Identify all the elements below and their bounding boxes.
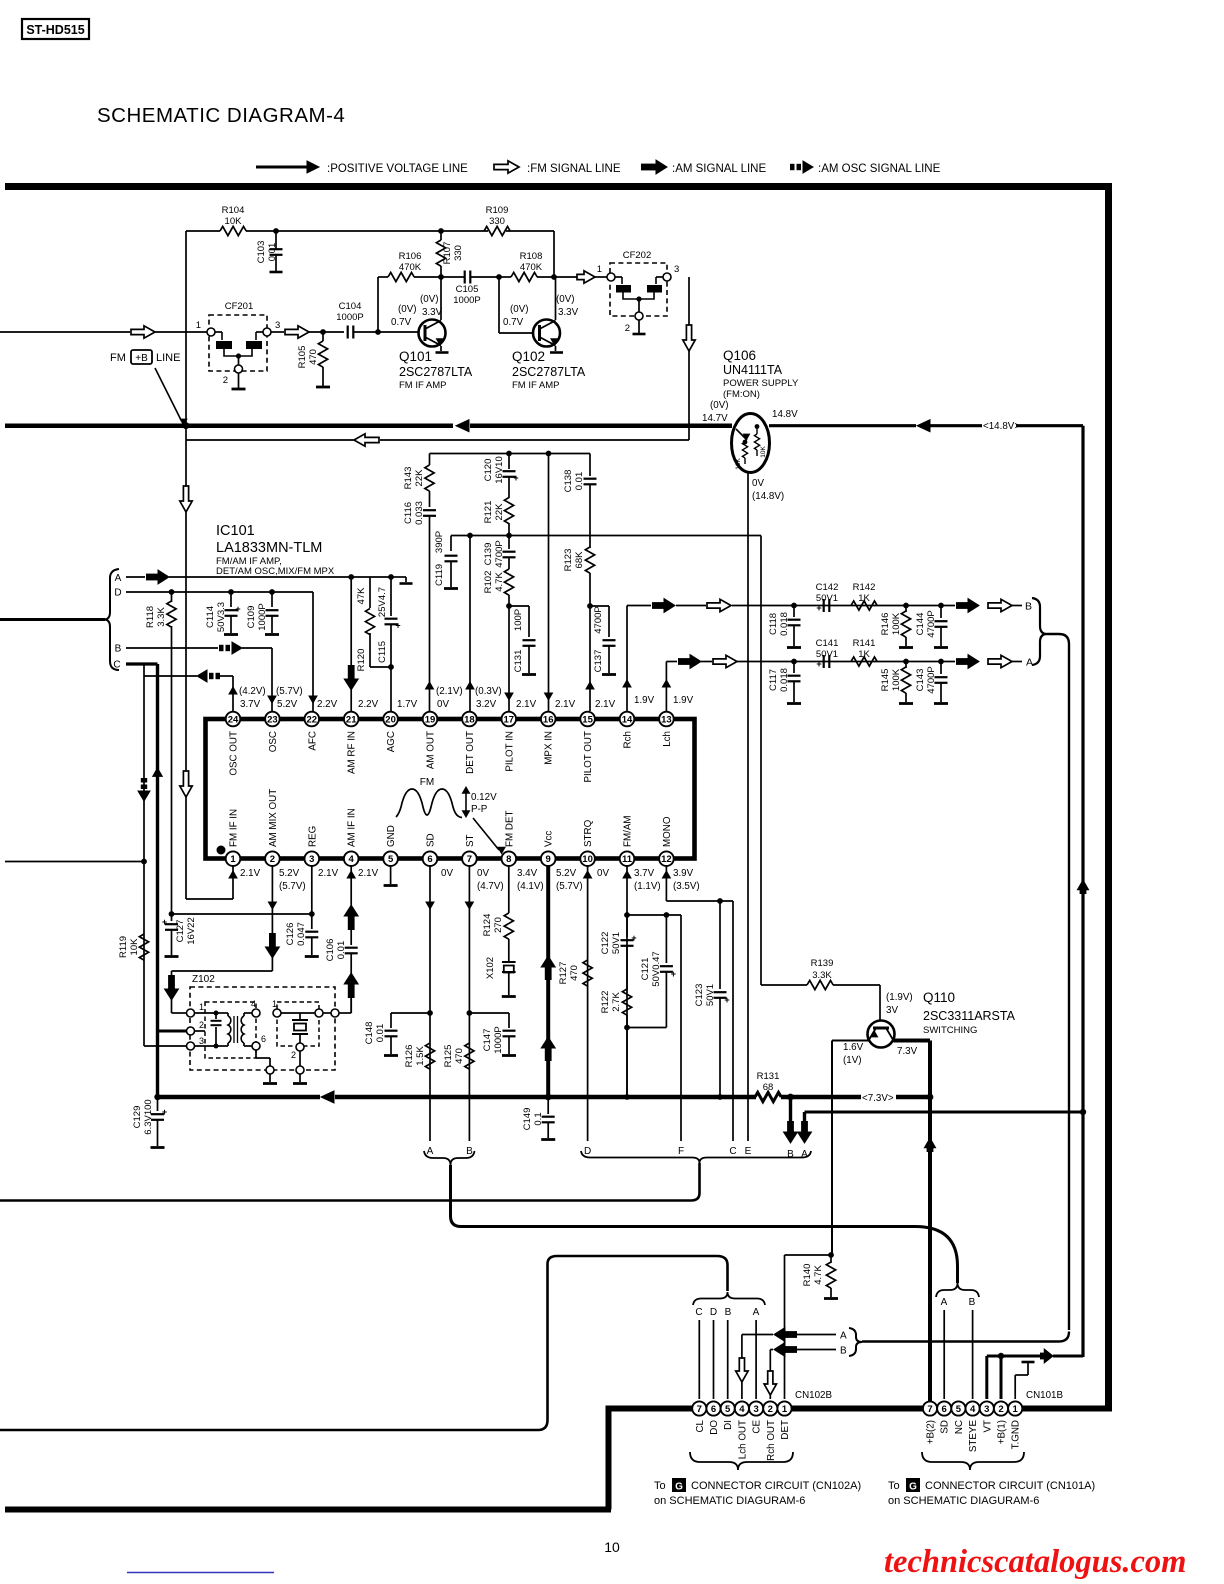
svg-text:CONNECTOR CIRCUIT (CN101A): CONNECTOR CIRCUIT (CN101A)	[925, 1480, 1095, 1492]
wire down to pin20	[390, 667, 392, 711]
svg-text:3: 3	[309, 854, 314, 865]
wire A/B bundle to right	[862, 1340, 1059, 1342]
svg-text:C139: C139	[483, 543, 494, 566]
FM input line from left	[0, 331, 130, 333]
svg-text:(4.2V): (4.2V)	[239, 686, 266, 697]
svg-text:FM: FM	[110, 352, 126, 364]
svg-text:2.1V: 2.1V	[358, 868, 379, 879]
AM arrow A line	[678, 658, 690, 665]
node R145 top	[903, 659, 909, 665]
wire to IC pin1	[186, 898, 233, 900]
resistor R140	[830, 1255, 832, 1263]
svg-text::POSITIVE VOLTAGE LINE: :POSITIVE VOLTAGE LINE	[327, 163, 468, 175]
IC101 pin 16 MPX IN	[541, 712, 556, 727]
wire pin2 route to Z102	[172, 970, 273, 972]
rail 7.3V thick	[158, 1095, 321, 1100]
svg-text:4: 4	[970, 1404, 976, 1415]
capacitor C122 electrolytic	[626, 915, 628, 937]
wire pin17 vertical	[508, 606, 510, 711]
svg-text:STEYE: STEYE	[968, 1420, 979, 1453]
IC101 pin 7 ST	[462, 851, 477, 866]
capacitor C138	[589, 454, 591, 477]
AM arrow B out	[956, 602, 968, 609]
CN102B pin 6	[706, 1401, 720, 1415]
svg-text:10K: 10K	[225, 216, 243, 227]
svg-text:13: 13	[661, 714, 672, 725]
svg-text:R105: R105	[297, 346, 308, 369]
A supply drop	[803, 1112, 806, 1126]
arrow on 14.8V line left	[456, 420, 469, 432]
svg-text:0.01: 0.01	[375, 1024, 386, 1043]
svg-text:LA1833MN-TLM: LA1833MN-TLM	[216, 540, 322, 556]
svg-text:1K: 1K	[858, 593, 870, 604]
svg-text:AGC: AGC	[386, 731, 397, 752]
brace D F C E A B bracket	[581, 1151, 811, 1163]
svg-text:A: A	[1026, 657, 1033, 669]
svg-text:3.3K: 3.3K	[812, 970, 832, 981]
CN102B pin stems	[698, 1320, 700, 1399]
svg-text:5.2V: 5.2V	[556, 868, 577, 879]
svg-text:4700P: 4700P	[494, 540, 505, 567]
IC101 pin 19 AM OUT	[423, 712, 438, 727]
Q102 base wire	[498, 277, 500, 333]
feed line CN102B CDBA	[0, 1256, 728, 1430]
arrow up on C vertical	[153, 768, 163, 776]
svg-text:DO: DO	[709, 1420, 720, 1435]
Z102 pin2	[187, 1027, 195, 1035]
pin1 index dot	[217, 846, 226, 855]
svg-text:5: 5	[725, 1404, 731, 1415]
svg-text:1: 1	[782, 1404, 788, 1415]
svg-text:AFC: AFC	[307, 731, 318, 751]
svg-text:C137: C137	[593, 650, 604, 673]
svg-text:(5.7V): (5.7V)	[276, 686, 303, 697]
svg-text:1: 1	[272, 999, 277, 1009]
ground CF202 pin2	[638, 320, 640, 333]
svg-text:0.12V: 0.12V	[471, 792, 497, 803]
wire pin14 vertical to B line	[626, 606, 628, 712]
svg-text:R141: R141	[853, 638, 876, 649]
svg-text:270: 270	[493, 917, 504, 933]
wire B/A bundle to bottom	[1047, 634, 1069, 644]
svg-text:CN102B: CN102B	[795, 1390, 832, 1401]
node pin18 tap	[467, 533, 473, 539]
node C115 top	[388, 574, 394, 580]
node R107 top	[438, 228, 444, 234]
svg-text:+: +	[235, 604, 240, 614]
svg-text:R106: R106	[399, 251, 422, 262]
svg-text:1: 1	[1013, 1404, 1019, 1415]
svg-text:14.7V: 14.7V	[702, 413, 728, 424]
svg-text:330: 330	[453, 245, 464, 261]
wire CF202 output down	[688, 277, 690, 440]
brace CN102B CDBA	[693, 1292, 765, 1305]
FM arrow down x186 lower	[180, 771, 192, 797]
resistor R143	[429, 454, 431, 466]
svg-text:C144: C144	[915, 613, 926, 636]
wire pin9 Vcc column thick	[546, 866, 550, 1097]
svg-text:R145: R145	[880, 669, 891, 692]
FM arrow A out	[988, 655, 1012, 667]
svg-text:PILOT OUT: PILOT OUT	[583, 731, 594, 783]
svg-text:1.7V: 1.7V	[397, 699, 418, 710]
svg-text:1: 1	[597, 264, 602, 275]
svg-text:R131: R131	[757, 1071, 780, 1082]
AM arrow B line	[652, 602, 664, 609]
Q102 emitter ground	[555, 346, 557, 351]
svg-text:50V1: 50V1	[816, 649, 838, 660]
svg-text:470K: 470K	[520, 262, 543, 273]
svg-text:+: +	[671, 969, 676, 979]
capacitor C143	[940, 662, 942, 675]
svg-text:R125: R125	[443, 1045, 454, 1068]
svg-text:STRQ: STRQ	[583, 819, 594, 847]
wire C osc row y676	[143, 664, 145, 676]
svg-text:50V1: 50V1	[705, 984, 716, 1006]
node C129 top	[154, 1094, 160, 1100]
svg-text:4700P: 4700P	[926, 666, 937, 693]
wire base row y277	[378, 276, 388, 278]
svg-text:10K: 10K	[129, 938, 140, 956]
node R146 top	[903, 603, 909, 609]
brace CN101B bottom	[922, 1452, 1024, 1470]
svg-text:16V10: 16V10	[494, 456, 505, 483]
svg-text:<7.3V>: <7.3V>	[862, 1093, 894, 1104]
wire Q110 base	[879, 985, 881, 1020]
node Q102 collector top	[551, 274, 557, 280]
wire B drop to pin23	[271, 648, 273, 711]
svg-text:(0V): (0V)	[510, 304, 529, 315]
svg-text:1: 1	[196, 320, 201, 331]
svg-text:ST: ST	[465, 834, 476, 847]
Z102 inner box resonator	[277, 1002, 319, 1046]
svg-text:MPX IN: MPX IN	[544, 731, 555, 765]
capacitor C109	[271, 592, 273, 607]
svg-text:A: A	[941, 1297, 948, 1308]
IC101 pin 21 AM RF IN	[344, 712, 359, 727]
svg-text:24: 24	[228, 714, 239, 725]
svg-text:3.3K: 3.3K	[156, 607, 167, 627]
svg-text:25V4.7: 25V4.7	[377, 587, 388, 617]
node C105 right	[496, 274, 502, 280]
wire left stub y861	[5, 861, 144, 863]
node R105 top	[320, 329, 326, 335]
resistor R123	[585, 547, 594, 573]
wire A row	[126, 576, 145, 578]
Q102 collector wire	[555, 277, 557, 320]
svg-text:(5.7V): (5.7V)	[279, 881, 306, 892]
arrow up on +B2 line	[924, 1138, 935, 1148]
svg-text:D: D	[710, 1307, 717, 1318]
node Q101 base	[375, 329, 381, 335]
AM OSC arrow B row	[219, 645, 224, 651]
svg-text:23: 23	[267, 714, 278, 725]
svg-text:50V1: 50V1	[816, 593, 838, 604]
FM arrow on input	[131, 326, 155, 338]
capacitor C149	[547, 1097, 549, 1114]
svg-text:4: 4	[739, 1404, 745, 1415]
svg-text::AM OSC SIGNAL LINE: :AM OSC SIGNAL LINE	[818, 163, 941, 175]
svg-text:2SC3311ARSTA: 2SC3311ARSTA	[923, 1009, 1016, 1023]
wire pin13 vertical to A line	[665, 662, 667, 712]
svg-text:X102: X102	[485, 957, 496, 979]
svg-text:10K: 10K	[760, 446, 767, 458]
svg-text:B: B	[969, 1297, 976, 1308]
resistor R122	[622, 989, 631, 1015]
node D-R118	[169, 589, 175, 595]
svg-text:16: 16	[543, 714, 554, 725]
Z102 resonator	[273, 1009, 281, 1017]
svg-text:C149: C149	[522, 1108, 533, 1131]
resistor R102	[504, 569, 513, 595]
svg-text:+: +	[162, 917, 167, 927]
svg-text:7: 7	[467, 854, 472, 865]
svg-text:2.2V: 2.2V	[358, 699, 379, 710]
IC101 pin 1 FM IF IN	[226, 851, 241, 866]
legend FM signal line	[494, 161, 519, 173]
brace CN101B A B	[936, 1283, 979, 1297]
Q101 collector wire	[440, 277, 442, 320]
svg-text:0V: 0V	[597, 868, 609, 879]
svg-text:2SC2787LTA: 2SC2787LTA	[399, 365, 473, 379]
svg-text:2: 2	[768, 1404, 773, 1415]
capacitor C104	[347, 326, 349, 339]
svg-text:3.7V: 3.7V	[240, 699, 261, 710]
node pin11 y915	[624, 912, 630, 918]
svg-text:C: C	[695, 1307, 702, 1318]
svg-text:+: +	[513, 473, 518, 483]
svg-text:0.01: 0.01	[574, 472, 585, 491]
svg-text:R139: R139	[811, 958, 834, 969]
crystal X102	[502, 961, 516, 963]
resistor R119	[139, 934, 148, 960]
IC101 pin 5 GND	[383, 851, 398, 866]
node R104-C103	[273, 228, 279, 234]
svg-text:14.8V: 14.8V	[772, 409, 798, 420]
svg-text:To: To	[654, 1480, 666, 1492]
svg-text:C123: C123	[694, 984, 705, 1007]
wire C thick vertical	[156, 664, 159, 1097]
svg-text:1: 1	[199, 1002, 204, 1012]
resistor R106	[388, 272, 414, 281]
svg-text:FM/AM: FM/AM	[623, 815, 634, 847]
svg-text:T.GND: T.GND	[1011, 1420, 1022, 1449]
svg-text:C115: C115	[377, 641, 388, 663]
svg-text:3.2V: 3.2V	[476, 699, 497, 710]
svg-text:3: 3	[674, 264, 679, 275]
svg-text:C104: C104	[339, 301, 362, 312]
node C131 tap	[506, 603, 512, 609]
svg-text:4.7K: 4.7K	[813, 1265, 824, 1285]
svg-text:8: 8	[506, 854, 511, 865]
svg-text:D: D	[584, 1146, 591, 1157]
capacitor C106	[345, 947, 358, 949]
svg-text:3.3V: 3.3V	[558, 307, 579, 318]
svg-text:2: 2	[625, 323, 630, 334]
svg-text:+: +	[816, 659, 821, 669]
CN102B pin 2	[763, 1401, 777, 1415]
CN101B pin 1	[1008, 1401, 1022, 1415]
svg-text:3.9V: 3.9V	[673, 868, 694, 879]
svg-text:6: 6	[261, 1034, 266, 1044]
svg-text:NC: NC	[954, 1420, 965, 1434]
svg-text:4.7K: 4.7K	[494, 572, 505, 592]
svg-text:3: 3	[984, 1404, 989, 1415]
svg-text:(0V): (0V)	[556, 294, 575, 305]
svg-text:Q102: Q102	[512, 349, 545, 364]
AM arrow A left	[785, 1331, 797, 1338]
svg-text:R104: R104	[222, 205, 245, 216]
node D-C114	[228, 589, 234, 595]
node 14.8V drop	[1080, 1109, 1086, 1115]
svg-text:FM: FM	[420, 777, 434, 788]
IC101 pin 12 MONO	[659, 851, 674, 866]
svg-text:B: B	[840, 1346, 847, 1357]
svg-text:3: 3	[753, 1404, 758, 1415]
svg-text:4: 4	[251, 999, 256, 1009]
wire C row thick	[126, 662, 158, 665]
node +B1 stem	[998, 1353, 1004, 1359]
svg-text::FM SIGNAL LINE: :FM SIGNAL LINE	[527, 163, 621, 175]
svg-text:CF202: CF202	[623, 250, 652, 261]
wire A drop to pin21	[350, 577, 352, 711]
svg-text:10: 10	[582, 854, 593, 865]
svg-text:R126: R126	[404, 1045, 415, 1068]
node C117 top	[791, 659, 797, 665]
svg-text:Q110: Q110	[923, 990, 955, 1005]
svg-text:A: A	[427, 1146, 434, 1157]
wire y536 line to Q110 base feed	[451, 535, 761, 537]
wire x144 osc line down to Z102	[143, 676, 145, 1046]
capacitor C103	[275, 231, 277, 249]
wire pin7 ST column	[468, 866, 470, 1141]
svg-text:Lch OUT: Lch OUT	[737, 1420, 748, 1459]
svg-text:(0V): (0V)	[420, 294, 439, 305]
svg-text:1.6V: 1.6V	[843, 1042, 864, 1053]
svg-text:C138: C138	[563, 470, 574, 493]
svg-text:68: 68	[763, 1082, 774, 1093]
wire B row	[126, 647, 218, 649]
ground CF201 pin2	[238, 373, 240, 388]
node Vcc rail	[545, 1094, 552, 1101]
CN102B pin 5	[721, 1401, 735, 1415]
svg-text:7: 7	[697, 1404, 702, 1415]
brace B/A outputs	[1032, 598, 1047, 665]
wire pin16 vertical	[548, 454, 550, 712]
Z102 pin3 node	[187, 1042, 195, 1050]
svg-text:on SCHEMATIC DIAGURAM-6: on SCHEMATIC DIAGURAM-6	[888, 1495, 1039, 1507]
bus SD/ST thick	[451, 1165, 958, 1283]
arrow up on 14.8V drop	[1077, 880, 1088, 890]
resistor R127	[583, 960, 592, 986]
wire pin6 SD column	[429, 866, 431, 1141]
wire D drop to pin22	[312, 592, 314, 711]
transistor Q110	[868, 1021, 895, 1048]
blue underline	[127, 1572, 274, 1574]
wire pin5 GND stub	[390, 866, 392, 884]
ground stub A row end	[391, 576, 406, 578]
svg-text:on SCHEMATIC DIAGURAM-6: on SCHEMATIC DIAGURAM-6	[654, 1495, 805, 1507]
svg-text:12: 12	[661, 854, 672, 865]
node B drop	[787, 1094, 794, 1101]
wire thick to Z102 pin2	[158, 1030, 187, 1033]
svg-text:21: 21	[346, 714, 357, 725]
transistor Q102	[533, 320, 560, 347]
wire vcc rail y453	[430, 453, 591, 455]
svg-text:3.3V: 3.3V	[422, 307, 443, 318]
wire 14.8V corner to VT	[1082, 1112, 1085, 1356]
wire pin12 MONO route	[665, 866, 667, 901]
Rch OUT stem with FM arrow	[769, 1350, 771, 1400]
CN102B pin 7	[692, 1401, 706, 1415]
svg-text:17: 17	[504, 714, 515, 725]
svg-text:IC101: IC101	[216, 523, 255, 539]
svg-text:AM MIX OUT: AM MIX OUT	[268, 789, 279, 847]
svg-text:+: +	[162, 1107, 167, 1117]
wire C column down	[732, 901, 734, 1141]
svg-text:0.7V: 0.7V	[391, 317, 412, 328]
capacitor C123	[719, 901, 721, 989]
AM arrow up pin4	[348, 916, 355, 930]
svg-text:100K: 100K	[891, 668, 902, 691]
svg-text:C103: C103	[256, 241, 267, 264]
Q110 collector wire thick	[894, 1039, 931, 1043]
svg-text:2: 2	[270, 854, 275, 865]
svg-text:3.7V: 3.7V	[634, 868, 655, 879]
AM arrow down A	[801, 1121, 808, 1132]
svg-text:22K: 22K	[494, 503, 505, 521]
svg-text:R121: R121	[483, 501, 494, 524]
FM arrow down on CF202 drop	[683, 325, 695, 351]
svg-text:2.2V: 2.2V	[317, 699, 338, 710]
resistor R141	[851, 657, 877, 666]
wire y915 branch	[627, 914, 681, 916]
svg-text:R127: R127	[558, 962, 569, 985]
discriminator Z102 outer box	[190, 987, 335, 1070]
wire pin11 FM AM column	[626, 866, 628, 1097]
IC101 pin 9 Vcc	[541, 851, 556, 866]
wire pin15 vertical	[589, 606, 591, 711]
svg-text:(1.9V): (1.9V)	[886, 992, 913, 1003]
svg-text:1.9V: 1.9V	[634, 695, 655, 706]
svg-text:C143: C143	[915, 669, 926, 692]
svg-text:Rch: Rch	[623, 731, 634, 748]
svg-text:470: 470	[454, 1048, 465, 1064]
svg-text:A: A	[115, 573, 122, 584]
svg-text:5.2V: 5.2V	[279, 868, 300, 879]
node C137 tap	[587, 603, 593, 609]
svg-text:C121: C121	[640, 958, 651, 981]
Z102 transformer secondary	[241, 1016, 244, 1043]
capacitor C121	[665, 915, 667, 963]
svg-text:2.1V: 2.1V	[555, 699, 576, 710]
ceramic filter CF202	[610, 263, 667, 316]
capacitor C137 branch	[590, 605, 609, 607]
svg-text:(1.1V): (1.1V)	[634, 881, 661, 892]
IC101 pin 4 AM IF IN	[344, 851, 359, 866]
FM arrow A line	[713, 655, 737, 667]
svg-text:C117: C117	[768, 669, 779, 691]
svg-text:R142: R142	[853, 582, 876, 593]
svg-text:C114: C114	[205, 606, 216, 628]
node C121 top	[664, 912, 670, 918]
svg-text:SCHEMATIC DIAGRAM-4: SCHEMATIC DIAGRAM-4	[97, 104, 345, 127]
node A-x351	[348, 574, 354, 580]
resistor R108	[499, 276, 511, 278]
svg-text:technicscatalogus.com: technicscatalogus.com	[884, 1544, 1186, 1580]
svg-text:(14.8V): (14.8V)	[752, 491, 784, 502]
svg-text:(0V): (0V)	[398, 304, 417, 315]
